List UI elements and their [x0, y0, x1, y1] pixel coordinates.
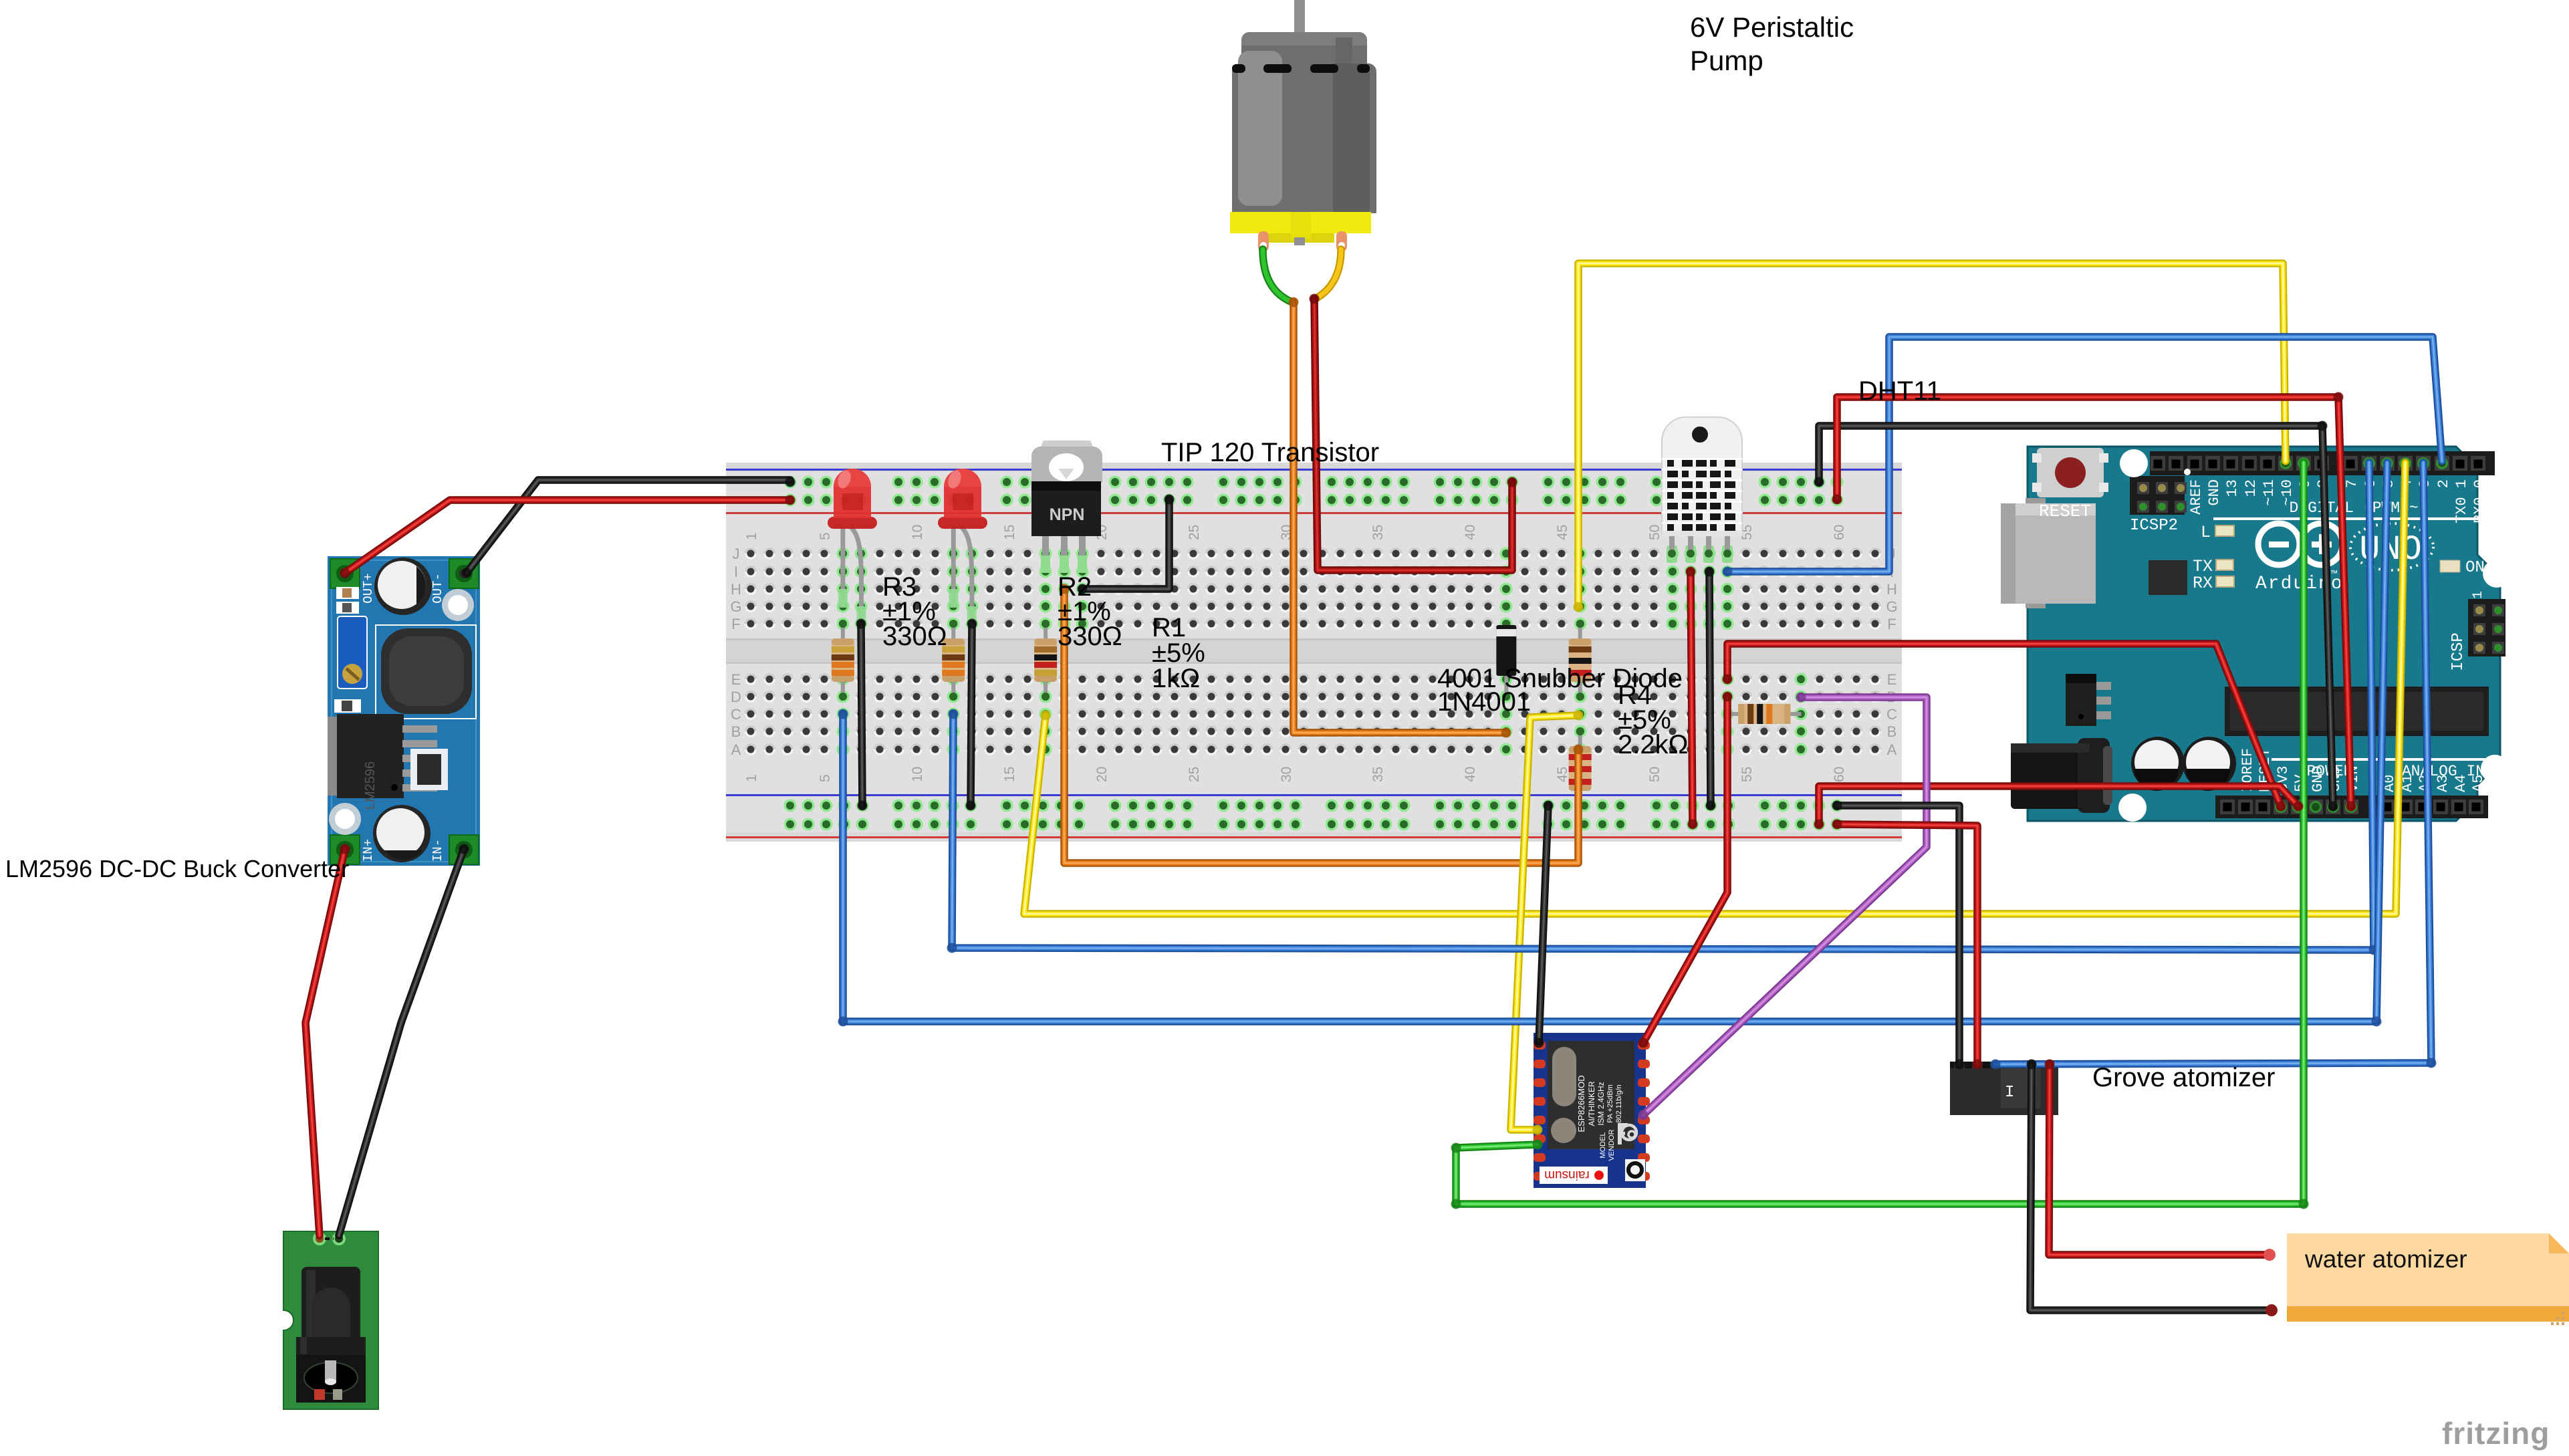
- wire blue C12 to pin6: [947, 463, 2379, 955]
- svg-text:IN-: IN-: [431, 839, 445, 862]
- wire black F7 to bottom rail: [856, 619, 868, 811]
- svg-text:A: A: [731, 741, 741, 758]
- svg-text:25: 25: [1187, 767, 1202, 782]
- svg-text:ON: ON: [2465, 559, 2485, 577]
- resistor R2: [942, 620, 965, 701]
- svg-text:AI/THINKER: AI/THINKER: [1587, 1081, 1596, 1126]
- svg-text:~11: ~11: [2261, 479, 2278, 506]
- wire orange H18 to A46: [1060, 584, 1584, 864]
- svg-text:AREF: AREF: [2188, 479, 2205, 515]
- Arduino Uno board U3: [2001, 447, 2511, 822]
- resistor R1: [1034, 620, 1057, 701]
- svg-text:330Ω: 330Ω: [1058, 622, 1122, 651]
- svg-text:H: H: [1886, 581, 1897, 598]
- svg-text:F: F: [1887, 616, 1896, 632]
- ESP8266 WiFi module U5: [1534, 1033, 1650, 1188]
- svg-text:50: 50: [1647, 525, 1663, 540]
- svg-text:40: 40: [1463, 767, 1478, 782]
- svg-text:D: D: [731, 689, 741, 705]
- svg-text:50: 50: [1647, 767, 1663, 782]
- svg-text:B: B: [731, 723, 741, 740]
- svg-text:RESET: RESET: [2039, 501, 2091, 521]
- svg-text:60: 60: [1832, 525, 1847, 540]
- wire red IN+ to barrel jack: [305, 844, 350, 1236]
- resistor R4b: [1569, 727, 1592, 810]
- resistor R3: [832, 620, 854, 701]
- LED D1 red 5mm: [828, 469, 877, 625]
- svg-text:12: 12: [2243, 479, 2259, 497]
- svg-text:1: 1: [2471, 591, 2486, 599]
- svg-text:TIP 120 Transistor: TIP 120 Transistor: [1161, 438, 1379, 467]
- svg-text:VENDOR: VENDOR: [1608, 1129, 1616, 1161]
- wire red grove to water atomizer: [2045, 1060, 2270, 1255]
- wire red bottom rail to grove VCC: [1832, 820, 1983, 1070]
- svg-text:RX0 0: RX0 0: [2471, 479, 2488, 523]
- diode D3 1N4001 snubber: [1496, 620, 1516, 701]
- pump lead green: [1259, 245, 1267, 253]
- svg-text:L: L: [2201, 523, 2211, 542]
- svg-text:DHT11: DHT11: [1858, 376, 1941, 406]
- svg-text:15: 15: [1002, 767, 1017, 782]
- svg-text:1kΩ: 1kΩ: [1152, 664, 1200, 693]
- Grove atomizer driver module U6: [1950, 1062, 2058, 1115]
- wire black IN- to barrel jack: [339, 844, 469, 1236]
- svg-text:35: 35: [1370, 767, 1386, 782]
- svg-text:60: 60: [1832, 767, 1847, 782]
- svg-text:330Ω: 330Ω: [882, 622, 947, 651]
- svg-text:1N4001: 1N4001: [1437, 687, 1531, 717]
- svg-text:I: I: [734, 564, 738, 580]
- svg-text:fritzing: fritzing: [2442, 1416, 2550, 1451]
- resistor R5: [1727, 704, 1801, 724]
- wire red OUT+ to top rail: [340, 495, 796, 578]
- wire black bottom rail to ESP RX: [1534, 801, 1554, 1048]
- svg-text:RX: RX: [2193, 574, 2213, 593]
- transistor Q1 TIP120 NPN: [1031, 441, 1102, 573]
- svg-text:OUT+: OUT+: [361, 573, 376, 604]
- svg-text:Grove atomizer: Grove atomizer: [2092, 1063, 2275, 1092]
- svg-text:20: 20: [1094, 767, 1110, 782]
- svg-text:PA +25dBm: PA +25dBm: [1606, 1084, 1614, 1123]
- breadboard: [726, 463, 1902, 842]
- svg-text:MODEL: MODEL: [1599, 1132, 1607, 1158]
- svg-text:rainsum: rainsum: [1544, 1168, 1590, 1182]
- svg-text:H: H: [731, 581, 741, 598]
- wire black H19 to top rail: [1078, 495, 1175, 594]
- water atomizer sticky note: [2287, 1233, 2569, 1325]
- wire blue grove SIG to pin3: [1991, 463, 2437, 1070]
- wire orange pump to B42: [1289, 297, 1511, 738]
- svg-text:™: ™: [2331, 570, 2337, 581]
- svg-text:OUT-: OUT-: [431, 573, 445, 604]
- wire black F13 to bottom rail: [966, 619, 977, 811]
- pump lead yellow: [1314, 249, 1341, 299]
- wire black bottom rail to grove GND: [1832, 801, 1965, 1070]
- svg-text:LM2596 DC-DC Buck Converter: LM2596 DC-DC Buck Converter: [5, 855, 349, 882]
- DHT11 sensor U4: [1662, 417, 1742, 563]
- svg-text:ANALOG IN: ANALOG IN: [2402, 763, 2485, 780]
- svg-text:C: C: [731, 706, 741, 723]
- svg-text:TX0 1: TX0 1: [2453, 479, 2470, 523]
- svg-text:I: I: [2005, 1084, 2014, 1102]
- svg-text:10: 10: [910, 525, 925, 540]
- svg-text:IN+: IN+: [361, 839, 376, 862]
- wire red E54 to 3V3: [1723, 644, 2286, 812]
- svg-text:10: 10: [910, 767, 925, 782]
- svg-text:B: B: [1887, 723, 1897, 740]
- svg-text:30: 30: [1279, 767, 1294, 782]
- svg-text:E: E: [731, 671, 741, 688]
- wire black grove to water atomizer: [2027, 1060, 2272, 1311]
- svg-text:802.11b/g/n: 802.11b/g/n: [1615, 1084, 1623, 1122]
- wire black top rail to GND pin: [1814, 421, 2338, 812]
- wire blue C6 to pin5: [838, 463, 2388, 1027]
- svg-text:35: 35: [1370, 525, 1386, 540]
- LM2596 DC-DC buck converter module U2: [328, 556, 480, 866]
- wire red I52 to bottom rail: [1686, 567, 1698, 830]
- wire yellow C46 to ESP GPIO: [1511, 711, 1584, 1135]
- svg-text:2: 2: [2435, 479, 2452, 488]
- wire red ESP VCC from D54: [1638, 692, 1733, 1048]
- svg-text:5: 5: [818, 532, 833, 540]
- svg-text:LM2596: LM2596: [363, 761, 378, 810]
- wire dark red pump to rail: [1310, 294, 1517, 571]
- svg-text:G: G: [1886, 598, 1897, 615]
- svg-text:45: 45: [1555, 525, 1570, 540]
- svg-text:C: C: [1886, 706, 1897, 723]
- wire blue I54 to pin2: [1723, 337, 2443, 577]
- wire red top rail to VIN pin: [1832, 392, 2356, 812]
- DC barrel jack J1 on green PCB: [283, 1231, 378, 1409]
- svg-text:13: 13: [2224, 479, 2241, 497]
- svg-text:ISM 2.4GHz: ISM 2.4GHz: [1596, 1082, 1606, 1125]
- svg-text:45: 45: [1555, 767, 1570, 782]
- wire black OUT- to top rail: [462, 477, 796, 578]
- svg-text:J: J: [733, 545, 740, 562]
- svg-text:ESP8266MOD: ESP8266MOD: [1576, 1075, 1586, 1132]
- svg-text:15: 15: [1002, 525, 1017, 540]
- svg-text:ICSP: ICSP: [2449, 632, 2467, 671]
- resistor R4a: [1569, 620, 1592, 701]
- svg-text:7: 7: [2344, 479, 2360, 488]
- svg-text:2.2kΩ: 2.2kΩ: [1618, 730, 1689, 759]
- svg-text:A: A: [1887, 741, 1897, 758]
- svg-text:G: G: [730, 598, 741, 615]
- 6V peristaltic pump M1 (DC motor): [1230, 0, 1376, 251]
- svg-text:water atomizer: water atomizer: [2304, 1245, 2467, 1273]
- wire yellow C17 to pin4: [1024, 463, 2405, 914]
- wire red bottom rail to 5V: [1814, 786, 2304, 830]
- svg-text:1: 1: [744, 532, 759, 540]
- svg-text:40: 40: [1463, 525, 1478, 540]
- wire black I53 to bottom rail: [1705, 567, 1716, 811]
- svg-text:55: 55: [1739, 767, 1755, 782]
- svg-text:5: 5: [818, 774, 833, 782]
- LED D2 red 5mm: [938, 469, 987, 625]
- svg-text:25: 25: [1187, 525, 1202, 540]
- wire purple D58 to ESP GPIO0: [1638, 693, 1927, 1120]
- svg-text:NPN: NPN: [1050, 505, 1085, 524]
- svg-text:F: F: [731, 616, 740, 632]
- svg-text:Pump: Pump: [1690, 45, 1763, 76]
- svg-text:GND: GND: [2206, 479, 2223, 506]
- svg-text:6V Peristaltic: 6V Peristaltic: [1690, 11, 1854, 43]
- wire yellow G46 to pin10: [1574, 263, 2286, 612]
- svg-text:E: E: [1887, 671, 1897, 688]
- svg-text:ICSP2: ICSP2: [2130, 517, 2178, 535]
- wire green ESP GPIO to pin9: [1451, 463, 2309, 1209]
- svg-text:1: 1: [744, 774, 759, 782]
